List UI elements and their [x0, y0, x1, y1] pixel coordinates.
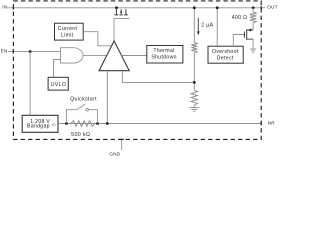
- AND gate: [61, 48, 84, 63]
- wire OUT rail to 400 ohm resistor: [252, 8, 254, 12]
- switch Quickstart: [66, 96, 97, 123]
- wire EN junction down to bandgap: [29, 52, 31, 116]
- pin tick IN at boundary: [12, 6, 14, 10]
- svg-text:IN: IN: [2, 4, 7, 9]
- wire UVLO to AND gate lower input: [54, 60, 61, 78]
- node NR rail amp-input junction: [106, 122, 109, 125]
- svg-text:OUT: OUT: [267, 4, 278, 9]
- wire op-amp feedback input to divider node: [122, 71, 194, 83]
- wire op-amp to Thermal Shutdown: [121, 55, 146, 57]
- box UVLO: [48, 77, 68, 90]
- wire PMOS gate to op-amp output: [114, 19, 129, 42]
- svg-text:GND: GND: [109, 152, 120, 157]
- wire IN rail / OUT rail (top): [7, 7, 265, 9]
- resistor feedback upper: [191, 42, 197, 53]
- svg-text:EN: EN: [1, 49, 8, 54]
- node OUT rail junction at 400 ohm: [252, 6, 255, 9]
- resistor feedback lower: [191, 90, 197, 106]
- svg-text:UVLO: UVLO: [51, 82, 66, 88]
- node EN junction: [29, 50, 32, 53]
- svg-text:(1): (1): [52, 123, 56, 127]
- wire NR rail: [58, 123, 261, 125]
- wire AND gate output to op-amp: [83, 54, 107, 56]
- pin GND stub: [121, 139, 123, 150]
- svg-text:Current: Current: [58, 26, 78, 32]
- node feedback divider junction: [193, 81, 196, 84]
- svg-text:Limit: Limit: [61, 32, 74, 38]
- box Overshoot Detect: [208, 46, 243, 63]
- box 1.208 V Bandgap: [22, 115, 58, 132]
- current source arrow 2 uA: [197, 18, 214, 36]
- wire Current Limit output to op-amp: [83, 32, 112, 46]
- node OUT rail junction at 2uA branch: [193, 6, 196, 9]
- ground divider: [189, 107, 199, 111]
- svg-text:500 kΩ: 500 kΩ: [71, 132, 90, 138]
- ground NMOS source: [250, 49, 256, 53]
- wire Overshoot Detect to NMOS gate: [233, 35, 244, 47]
- pin NR: [268, 121, 276, 126]
- wire EN line: [8, 51, 61, 53]
- svg-text:2 µA: 2 µA: [201, 22, 213, 28]
- pin tick OUT at boundary: [260, 6, 262, 10]
- svg-text:Bandgap: Bandgap: [27, 124, 50, 130]
- svg-text:400 Ω: 400 Ω: [232, 15, 247, 21]
- dashed device boundary: [13, 1, 261, 140]
- PMOS pass transistor: [115, 6, 128, 15]
- node NR rail right junction: [96, 122, 99, 125]
- svg-text:Overshoot: Overshoot: [212, 49, 239, 55]
- wire divider mid segment: [193, 53, 195, 90]
- box Current Limit: [55, 23, 84, 40]
- NMOS overshoot transistor: [244, 29, 253, 49]
- wire 400 ohm to NMOS drain: [252, 23, 254, 30]
- op-amp error amplifier: [99, 41, 129, 71]
- pin tick GND at boundary: [120, 138, 124, 140]
- pin GND label: [109, 152, 120, 157]
- box Thermal Shutdown: [147, 46, 183, 64]
- wire OUT rail down to current source: [193, 8, 195, 43]
- node NR rail left junction: [65, 122, 68, 125]
- pin tick NR at boundary: [260, 122, 262, 126]
- svg-text:Thermal: Thermal: [153, 48, 174, 54]
- wire OUT rail down to Overshoot Detect: [216, 8, 218, 46]
- node OUT rail junction at Overshoot branch: [216, 6, 219, 9]
- resistor 500 kohm: [71, 121, 95, 138]
- svg-text:NR: NR: [268, 121, 276, 126]
- pin OUT: [267, 4, 278, 9]
- svg-text:Shutdown: Shutdown: [151, 55, 176, 61]
- resistor 400 ohm: [232, 12, 257, 23]
- svg-text:Detect: Detect: [217, 56, 234, 62]
- svg-text:Quickstart: Quickstart: [70, 96, 97, 102]
- wire op-amp reference input to NR rail: [106, 71, 108, 124]
- pin EN: [1, 49, 8, 54]
- pin IN: [2, 4, 7, 9]
- wire divider bottom to ground: [193, 105, 195, 107]
- pin tick EN at boundary: [12, 50, 14, 54]
